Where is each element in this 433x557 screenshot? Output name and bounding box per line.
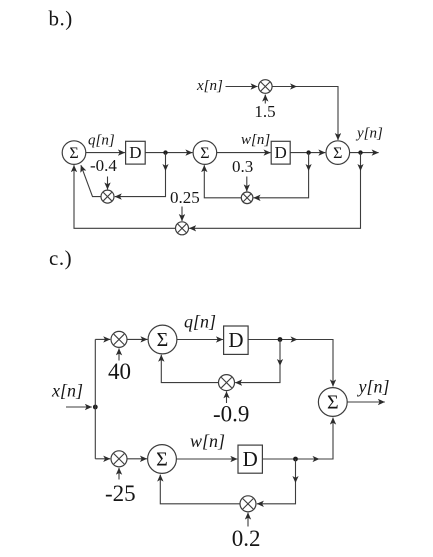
- node x[n] input label (diagram c): [51, 381, 83, 401]
- svg-text:0.2: 0.2: [232, 526, 261, 551]
- multiplier M5 (gain 40): [111, 331, 127, 347]
- multiplier M8 (gain 0.2): [240, 496, 256, 512]
- svg-text:-0.4: -0.4: [90, 156, 117, 175]
- value label -25: [105, 481, 136, 506]
- multiplier M7 (gain -25): [111, 451, 127, 467]
- wire coefficient 40 into M5: [118, 348, 120, 360]
- wire coefficient -0.4 into M2: [107, 177, 109, 190]
- wire coefficient 0.2 into M8: [247, 513, 249, 527]
- svg-text:D: D: [129, 143, 141, 162]
- wire coefficient 0.25 into M4: [181, 207, 183, 222]
- value label -0.9: [213, 402, 249, 427]
- adder S1 (diagram b): [62, 141, 86, 165]
- svg-text:b.): b.): [49, 7, 73, 31]
- svg-text:y[n]: y[n]: [357, 377, 390, 397]
- adder S5 (diagram c lower): [148, 445, 177, 474]
- junction after D1: [163, 150, 167, 154]
- node y[n] output label (diagram b): [355, 126, 383, 142]
- multiplier M6 (gain -0.9): [219, 375, 235, 391]
- wire trunk top to multiplier M5: [95, 338, 110, 340]
- multiplier M2 (gain -0.4): [101, 190, 114, 203]
- svg-text:Σ: Σ: [69, 145, 78, 162]
- wire junction down and left to M3: [254, 153, 312, 198]
- delay block D3: [224, 326, 249, 354]
- node x[n] input label (diagram b): [196, 78, 223, 94]
- svg-text:Σ: Σ: [156, 449, 168, 471]
- wire D1 to adder S2: [145, 152, 192, 154]
- wire M7 to adder S5: [127, 458, 147, 460]
- node q[n] label: [88, 133, 115, 149]
- junction on input trunk: [93, 405, 98, 410]
- svg-text:D: D: [243, 447, 258, 471]
- wire S3 output y[n]: [350, 152, 379, 154]
- wire x[n] arrow into trunk junction: [66, 406, 92, 408]
- wire S6 output y[n]: [347, 401, 385, 403]
- wire D2 to adder S3: [290, 152, 325, 154]
- adder S4 (diagram c upper): [148, 325, 177, 354]
- svg-text:Σ: Σ: [327, 392, 339, 414]
- delay block D4: [238, 445, 262, 473]
- junction after D2: [306, 150, 310, 154]
- value label 1.5: [254, 102, 275, 121]
- value label 0.3: [232, 157, 253, 176]
- svg-text:x[n]: x[n]: [51, 381, 83, 401]
- wire coefficient 0.3 into M3: [246, 177, 248, 192]
- svg-text:Σ: Σ: [333, 145, 342, 162]
- svg-text:-25: -25: [105, 481, 136, 506]
- wire S2 to delay D2: [217, 152, 271, 154]
- svg-text:q[n]: q[n]: [88, 133, 115, 149]
- multiplier M4 (gain 0.25): [176, 222, 189, 235]
- value label -0.4: [90, 156, 117, 175]
- delay block D1: [126, 141, 146, 164]
- wire x[n] to multiplier M1: [226, 86, 258, 88]
- adder S3 (diagram b): [326, 141, 350, 165]
- svg-text:-0.9: -0.9: [213, 402, 249, 427]
- node q[n] label (diagram c): [184, 312, 216, 332]
- wire D4 to adder S6 bottom: [262, 418, 333, 463]
- node w[n] label: [241, 132, 270, 148]
- junction after D4: [293, 457, 298, 462]
- svg-text:Σ: Σ: [157, 329, 169, 351]
- wire y[n] feedback down and left to M4: [189, 153, 363, 229]
- wire M4 output to adder S1 bottom: [74, 165, 176, 228]
- wire D3 to adder S6 top: [248, 336, 333, 386]
- wire coefficient -0.9 into M6: [226, 391, 228, 403]
- svg-text:0.3: 0.3: [232, 157, 253, 176]
- svg-text:w[n]: w[n]: [241, 132, 270, 148]
- junction after D3: [278, 337, 283, 342]
- wire M3 output to adder S2 bottom: [204, 165, 241, 198]
- svg-text:40: 40: [108, 359, 131, 384]
- wire coefficient -25 into M7: [118, 468, 120, 480]
- svg-text:w[n]: w[n]: [190, 431, 225, 451]
- node w[n] label (diagram c): [190, 431, 225, 451]
- wire M5 to adder S4: [127, 338, 147, 340]
- svg-text:D: D: [228, 328, 243, 352]
- wire M1 to adder S3 top: [272, 83, 338, 140]
- adder S6 (diagram c output): [318, 388, 347, 417]
- wire coefficient 1.5 into M1: [264, 95, 266, 104]
- delay block D2: [271, 141, 290, 164]
- svg-text:D: D: [275, 143, 287, 162]
- section label b.): [49, 7, 73, 31]
- wire input trunk vertical: [94, 339, 96, 458]
- wire S4 to delay D3: [177, 339, 223, 341]
- wire trunk bottom to multiplier M7: [95, 458, 110, 460]
- value label 40: [108, 359, 131, 384]
- value label 0.25: [170, 188, 200, 207]
- svg-text:Σ: Σ: [200, 145, 209, 162]
- node y[n] output label (diagram c): [357, 377, 390, 397]
- svg-text:y[n]: y[n]: [355, 126, 383, 142]
- svg-text:c.): c.): [49, 246, 72, 270]
- adder S2 (diagram b): [193, 141, 217, 165]
- wire M8 output to adder S5 bottom: [160, 475, 240, 504]
- wire M6 output to adder S4 bottom: [161, 355, 218, 383]
- wire S1 to delay D1: [86, 152, 125, 154]
- multiplier M1 (gain 1.5, diagram b): [259, 80, 273, 94]
- svg-text:q[n]: q[n]: [184, 312, 216, 332]
- multiplier M3 (gain 0.3): [241, 192, 253, 204]
- value label 0.2: [232, 526, 261, 551]
- wire S5 to delay D4: [176, 458, 237, 460]
- junction on y[n] output: [358, 150, 362, 154]
- wire junction down and left to M8: [257, 459, 299, 504]
- section label c.): [49, 246, 72, 270]
- wire junction down and left to M2: [115, 153, 169, 197]
- svg-text:1.5: 1.5: [254, 102, 275, 121]
- svg-text:0.25: 0.25: [170, 188, 200, 207]
- wire junction down and left to M6: [235, 340, 283, 383]
- svg-text:x[n]: x[n]: [196, 78, 223, 94]
- wire M2 output diagonally up to adder S1: [81, 165, 101, 196]
